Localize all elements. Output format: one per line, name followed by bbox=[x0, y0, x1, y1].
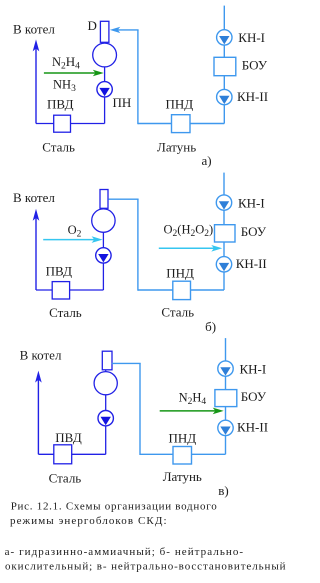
cleanup unit БОУ (a) bbox=[214, 57, 236, 75]
pump КН-II (v) bbox=[218, 420, 233, 435]
svg-text:КН-II: КН-II bbox=[237, 420, 268, 435]
wire: condensate riser to deaerator (v) bbox=[139, 363, 141, 455]
heater ПВД (v) bbox=[54, 445, 72, 464]
svg-text:ПВД: ПВД bbox=[46, 263, 73, 278]
svg-text:а): а) bbox=[202, 153, 212, 168]
heater ПНД (b) bbox=[173, 281, 191, 299]
svg-text:БОУ: БОУ bbox=[241, 389, 267, 404]
wire: feedwater bottom line through ПВД (v) bbox=[38, 453, 105, 455]
svg-text:КН-I: КН-I bbox=[240, 361, 267, 376]
wire: feedwater bottom line through ПВД (b) bbox=[36, 289, 103, 291]
svg-text:ПНД: ПНД bbox=[166, 97, 194, 112]
wire: deaerator downcomer to pump (b) bbox=[102, 209, 104, 290]
wire: feedwater riser to boiler (v) bbox=[35, 371, 42, 455]
deaerator tank (v) bbox=[94, 372, 117, 395]
svg-text:Сталь: Сталь bbox=[161, 304, 194, 319]
pump КН-I (v) bbox=[218, 361, 233, 376]
svg-text:Латунь: Латунь bbox=[157, 139, 196, 154]
svg-text:Рис. 12.1. Схемы организации в: Рис. 12.1. Схемы организации водного bbox=[11, 501, 218, 513]
wire: feedwater riser to boiler (b) bbox=[33, 209, 40, 290]
wire: deaerator downcomer to pump ПН (a) bbox=[104, 43, 106, 124]
pump КН-I (a) bbox=[217, 30, 232, 45]
svg-text:В котел: В котел bbox=[13, 22, 55, 37]
wire: condensate bottom line through ПНД (a) bbox=[138, 123, 224, 125]
wire: condensate main column (v) bbox=[225, 338, 227, 454]
svg-text:режимы энергоблоков СКД:: режимы энергоблоков СКД: bbox=[10, 515, 167, 527]
heater ПВД (a) bbox=[54, 115, 71, 132]
svg-text:БОУ: БОУ bbox=[241, 224, 267, 239]
wire: condensate return into deaerator with arrow (a) bbox=[110, 27, 139, 33]
svg-text:в): в) bbox=[218, 483, 228, 498]
svg-text:ПН: ПН bbox=[113, 95, 132, 110]
wire: condensate main column (b) bbox=[223, 173, 225, 290]
wire: feedwater riser to boiler (diagram a) bbox=[33, 39, 40, 123]
wire: deaerator downcomer to pump (v) bbox=[105, 371, 107, 455]
wire: feedwater bottom line through ПВД (a) bbox=[36, 123, 105, 125]
wire: condensate riser to deaerator (b) bbox=[137, 199, 139, 291]
wire: condensate main column (a) bbox=[223, 6, 225, 124]
svg-text:Сталь: Сталь bbox=[49, 471, 82, 486]
wire: condensate bottom line through ПНД (v) bbox=[140, 453, 226, 455]
svg-text:КН-I: КН-I bbox=[238, 30, 265, 45]
wire: condensate bottom line through ПНД (b) bbox=[138, 289, 224, 291]
cleanup unit БОУ (b) bbox=[215, 225, 236, 242]
pump (b) bbox=[96, 248, 111, 263]
deaerator tank (b) bbox=[92, 209, 115, 232]
svg-text:Сталь: Сталь bbox=[49, 305, 82, 320]
wire: condensate return into deaerator (v) bbox=[112, 362, 141, 364]
wire: condensate return into deaerator (b) bbox=[108, 198, 138, 200]
svg-text:Сталь: Сталь bbox=[42, 139, 75, 154]
svg-text:В котел: В котел bbox=[20, 348, 62, 363]
injection arrow O2 (b) bbox=[43, 236, 102, 243]
svg-text:N2H4: N2H4 bbox=[179, 391, 207, 408]
svg-text:N2H4: N2H4 bbox=[52, 54, 80, 72]
svg-text:КН-II: КН-II bbox=[236, 256, 267, 271]
svg-text:а- гидразинно-аммиачный; б- не: а- гидразинно-аммиачный; б- нейтрально- bbox=[5, 546, 244, 558]
svg-text:Латунь: Латунь bbox=[163, 469, 202, 484]
svg-text:D: D bbox=[88, 18, 97, 33]
svg-text:ПНД: ПНД bbox=[169, 431, 197, 446]
svg-text:ПВД: ПВД bbox=[55, 430, 82, 445]
heater ПНД (a) bbox=[172, 115, 191, 133]
pump КН-II (a) bbox=[217, 89, 232, 104]
cleanup unit БОУ (v) bbox=[215, 390, 237, 407]
injection arrow N2H4/NH3 (a) bbox=[44, 70, 104, 77]
deaerator column (b) bbox=[100, 190, 108, 209]
pump ПН (a) bbox=[97, 82, 112, 97]
heater ПНД (v) bbox=[173, 447, 192, 465]
svg-text:б): б) bbox=[205, 319, 216, 334]
pump КН-II (b) bbox=[216, 257, 231, 272]
svg-text:O2: O2 bbox=[68, 223, 82, 240]
injection arrow N2H4 (v) bbox=[160, 408, 224, 415]
svg-text:В котел: В котел bbox=[13, 190, 55, 205]
svg-text:БОУ: БОУ bbox=[242, 58, 268, 73]
svg-text:окислительный; в- нейтрально-в: окислительный; в- нейтрально-восстановит… bbox=[5, 561, 286, 573]
injection arrow O2(H2O2) (b) bbox=[159, 245, 223, 252]
pump КН-I (b) bbox=[216, 195, 231, 210]
svg-text:КН-I: КН-I bbox=[238, 195, 265, 210]
svg-text:КН-II: КН-II bbox=[237, 89, 268, 104]
deaerator column D (a) bbox=[100, 21, 109, 42]
wire: condensate riser to deaerator (a) bbox=[137, 30, 139, 124]
svg-text:NH3: NH3 bbox=[53, 78, 76, 95]
heater ПВД (b) bbox=[52, 282, 69, 299]
svg-text:ПВД: ПВД bbox=[47, 97, 74, 112]
pump (v) bbox=[98, 411, 113, 426]
deaerator column (v) bbox=[102, 351, 112, 370]
deaerator tank (a) bbox=[93, 43, 117, 67]
svg-text:O2(H2O2): O2(H2O2) bbox=[164, 223, 214, 240]
svg-text:ПНД: ПНД bbox=[166, 266, 194, 281]
